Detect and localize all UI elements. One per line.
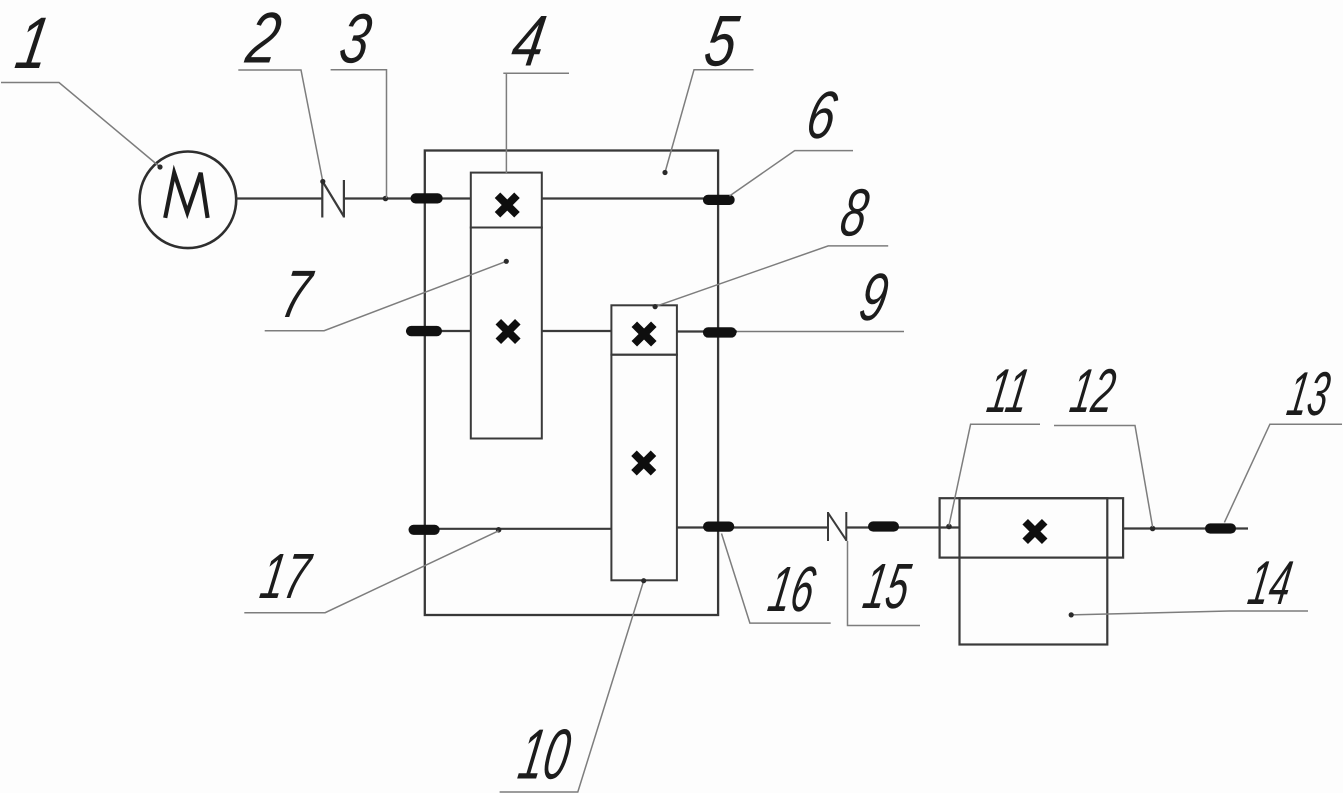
wire: motor shaft to coupling bbox=[236, 197, 322, 199]
svg-text:1: 1 bbox=[10, 3, 56, 85]
label 7 leader underline bbox=[265, 261, 507, 330]
svg-text:4: 4 bbox=[506, 0, 551, 81]
bearing pill on shaft after coupling 15 bbox=[868, 521, 899, 531]
label 3 leader underline bbox=[331, 70, 387, 198]
node: junction dot for label 11 bbox=[946, 524, 952, 530]
label 1 leader dot bbox=[157, 164, 162, 169]
wire: intermediate shaft middle segment bbox=[542, 330, 612, 332]
svg-text:2: 2 bbox=[240, 0, 286, 78]
label 14 leader dot bbox=[1069, 612, 1074, 617]
label 17 leader underline bbox=[244, 531, 498, 613]
motor letter M bbox=[165, 173, 207, 218]
gear 10 box bbox=[611, 355, 677, 581]
label 10 leader underline bbox=[500, 581, 644, 792]
gear 7 cross bbox=[498, 322, 518, 342]
coupling 2 (N symbol) left bar bbox=[321, 180, 323, 218]
label 8 leader dot bbox=[653, 304, 658, 309]
svg-text:17: 17 bbox=[256, 540, 318, 612]
svg-text:14: 14 bbox=[1244, 548, 1298, 618]
wire: intermediate shaft left segment bbox=[406, 330, 471, 332]
gearbox housing 5 bbox=[425, 151, 718, 616]
wire: coupling to gearbox input bbox=[344, 197, 471, 199]
label 2 leader underline bbox=[238, 70, 322, 182]
node: junction dot for label 3 bbox=[383, 196, 389, 202]
label 10 leader dot bbox=[641, 578, 646, 583]
bearing pill right wall shaft3 (16) bbox=[703, 522, 734, 532]
svg-text:6: 6 bbox=[801, 77, 843, 152]
svg-text:9: 9 bbox=[854, 260, 893, 335]
label 14 leader underline bbox=[1071, 611, 1308, 615]
label 5 leader underline bbox=[665, 70, 754, 173]
worm gear outer box (11/12) bbox=[940, 498, 1124, 557]
label 7 leader dot bbox=[504, 259, 509, 264]
coupling 2 right bar bbox=[343, 180, 345, 218]
wire: shaft from coupling to worm unit bbox=[846, 526, 959, 528]
label 16 leader underline bbox=[722, 534, 831, 624]
label 13 leader underline bbox=[1224, 424, 1342, 522]
node: junction dot for label 12 bbox=[1150, 526, 1156, 532]
svg-text:11: 11 bbox=[982, 357, 1034, 426]
wire: input shaft inside gearbox bbox=[542, 197, 730, 199]
svg-text:7: 7 bbox=[276, 258, 318, 332]
svg-text:13: 13 bbox=[1283, 359, 1335, 428]
gear 8 box bbox=[611, 305, 677, 354]
label 5 leader dot bbox=[662, 170, 667, 175]
motor M (1): circle bbox=[140, 152, 237, 249]
wire: label 9 line (shaft 2 extension) bbox=[677, 330, 737, 332]
svg-text:15: 15 bbox=[858, 551, 915, 622]
svg-text:3: 3 bbox=[334, 1, 377, 79]
coupling 15 right bar bbox=[845, 512, 847, 541]
label 8 leader underline bbox=[655, 246, 888, 307]
wire: output stub right of worm unit bbox=[1123, 527, 1248, 529]
label 12 leader underline bbox=[1054, 426, 1153, 528]
gear 7 box bbox=[471, 228, 542, 439]
wire: output shaft right segment to coupling 15 bbox=[677, 526, 828, 528]
coupling 2 diagonal bbox=[322, 181, 344, 217]
label 11 leader underline bbox=[949, 424, 1040, 525]
worm wheel body 14 bbox=[960, 498, 1108, 644]
bearing pill left wall shaft1 bbox=[411, 193, 443, 203]
svg-text:12: 12 bbox=[1065, 357, 1120, 426]
gear 4 cross bbox=[498, 195, 518, 215]
bearing pill left wall shaft2 bbox=[406, 326, 442, 336]
label 6 leader underline bbox=[730, 151, 854, 196]
svg-text:16: 16 bbox=[763, 554, 820, 625]
svg-text:10: 10 bbox=[513, 714, 576, 793]
label 4 leader underline bbox=[503, 73, 569, 173]
worm gear cross bbox=[1025, 522, 1045, 542]
coupling 15 diagonal bbox=[828, 513, 846, 540]
svg-text:8: 8 bbox=[835, 176, 873, 250]
label 2 leader dot bbox=[320, 179, 325, 184]
gear 4 box bbox=[471, 173, 542, 228]
label 1 leader underline bbox=[1, 83, 160, 168]
label 15 leader underline bbox=[848, 541, 921, 626]
gear 10 cross bbox=[634, 453, 654, 473]
bearing pill right wall shaft1 (6) bbox=[703, 195, 735, 205]
coupling 15 (N symbol) left bar bbox=[827, 512, 829, 541]
bearing pill near output end 13 bbox=[1205, 523, 1236, 533]
wire: output shaft left segment bbox=[409, 528, 611, 530]
node: junction dot for label 17 bbox=[496, 527, 502, 533]
bearing pill right wall shaft2 bbox=[703, 327, 737, 337]
bearing pill left wall shaft3 bbox=[409, 525, 440, 535]
gear 8 cross bbox=[634, 324, 654, 344]
